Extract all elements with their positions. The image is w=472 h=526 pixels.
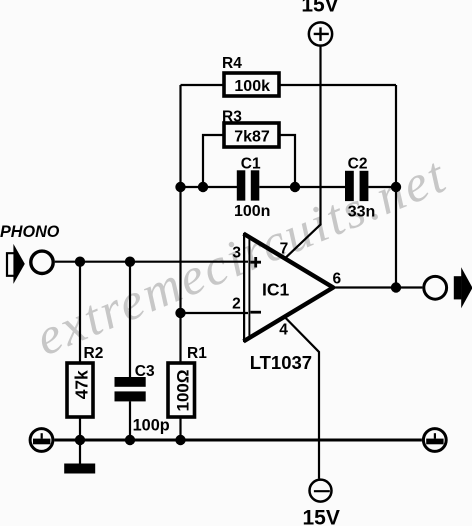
node input/R2 junction <box>75 257 85 267</box>
wire input row to pin 3 <box>55 261 248 263</box>
node ground/C3 junction <box>125 435 135 445</box>
+15V supply terminal <box>301 0 338 46</box>
wire C1 to C2 <box>259 186 345 188</box>
svg-text:IC1: IC1 <box>262 280 290 300</box>
wire C2 to right bus <box>368 186 396 188</box>
resistor R1 <box>168 345 207 417</box>
svg-text:4: 4 <box>279 321 288 338</box>
node ground/R2 junction <box>75 435 85 445</box>
svg-text:C2: C2 <box>348 156 368 173</box>
node C2 / right bus junction <box>391 182 401 192</box>
svg-text:100n: 100n <box>234 203 270 220</box>
wire R4 feedback row <box>181 84 397 86</box>
capacitor C2 <box>345 156 375 221</box>
op-amp IC1 <box>232 233 341 373</box>
node input/C3 junction <box>125 257 135 267</box>
input terminal circle <box>31 251 53 273</box>
resistor R3 <box>222 109 279 147</box>
wire right bus <box>395 85 397 288</box>
svg-text:R1: R1 <box>187 345 207 362</box>
capacitor C3 <box>115 363 170 435</box>
svg-text:7: 7 <box>280 240 289 257</box>
node R3 left / C1 row junction <box>198 182 208 192</box>
svg-text:2: 2 <box>232 296 241 313</box>
svg-text:33n: 33n <box>348 203 376 220</box>
svg-text:LT1037: LT1037 <box>250 352 312 373</box>
svg-text:PHONO: PHONO <box>0 223 60 241</box>
node left bus / C1 row junction <box>175 182 185 192</box>
svg-text:R2: R2 <box>84 345 104 362</box>
node output / right bus junction <box>391 282 401 292</box>
svg-text:R3: R3 <box>222 109 242 126</box>
svg-text:C3: C3 <box>135 363 155 380</box>
wire R2 branch <box>79 262 81 440</box>
wire +15V to pin 7 <box>285 46 321 258</box>
svg-text:100p: 100p <box>133 416 170 434</box>
wire R3 left leg <box>203 135 224 187</box>
svg-text:100Ω: 100Ω <box>174 370 193 412</box>
node R3 right / C1 row junction <box>290 182 300 192</box>
resistor R2 <box>67 345 103 417</box>
input arrow <box>7 244 25 284</box>
left ground terminal <box>30 429 53 452</box>
right ground terminal <box>423 429 446 452</box>
wire ground row <box>54 439 422 442</box>
wire C1 row left <box>181 186 238 188</box>
svg-text:15V: 15V <box>303 507 340 526</box>
svg-text:C1: C1 <box>241 156 261 173</box>
svg-text:100k: 100k <box>234 78 270 95</box>
wire C3 branch <box>129 262 131 440</box>
-15V supply terminal <box>303 480 340 526</box>
svg-text:6: 6 <box>333 270 342 287</box>
wire pin 2 row <box>181 312 249 314</box>
wire pin 4 to -15V <box>285 317 319 479</box>
wire left bus <box>179 85 181 363</box>
wire R1 bottom leg <box>179 417 181 440</box>
wire output row <box>334 286 423 288</box>
ground symbol <box>64 464 95 474</box>
svg-text:R4: R4 <box>222 55 242 72</box>
svg-text:3: 3 <box>232 244 241 261</box>
wire R3 right leg <box>279 135 295 187</box>
output arrow <box>454 267 472 308</box>
svg-text:7k87: 7k87 <box>234 128 270 145</box>
svg-text:15V: 15V <box>301 0 338 16</box>
node pin 2 / left bus junction <box>175 308 185 318</box>
node ground/R1 junction <box>175 435 185 445</box>
resistor R4 <box>222 55 279 96</box>
capacitor C1 <box>234 156 270 221</box>
output terminal circle <box>424 276 447 299</box>
wire ground stub below R2 <box>79 440 81 464</box>
svg-text:47k: 47k <box>71 370 91 399</box>
